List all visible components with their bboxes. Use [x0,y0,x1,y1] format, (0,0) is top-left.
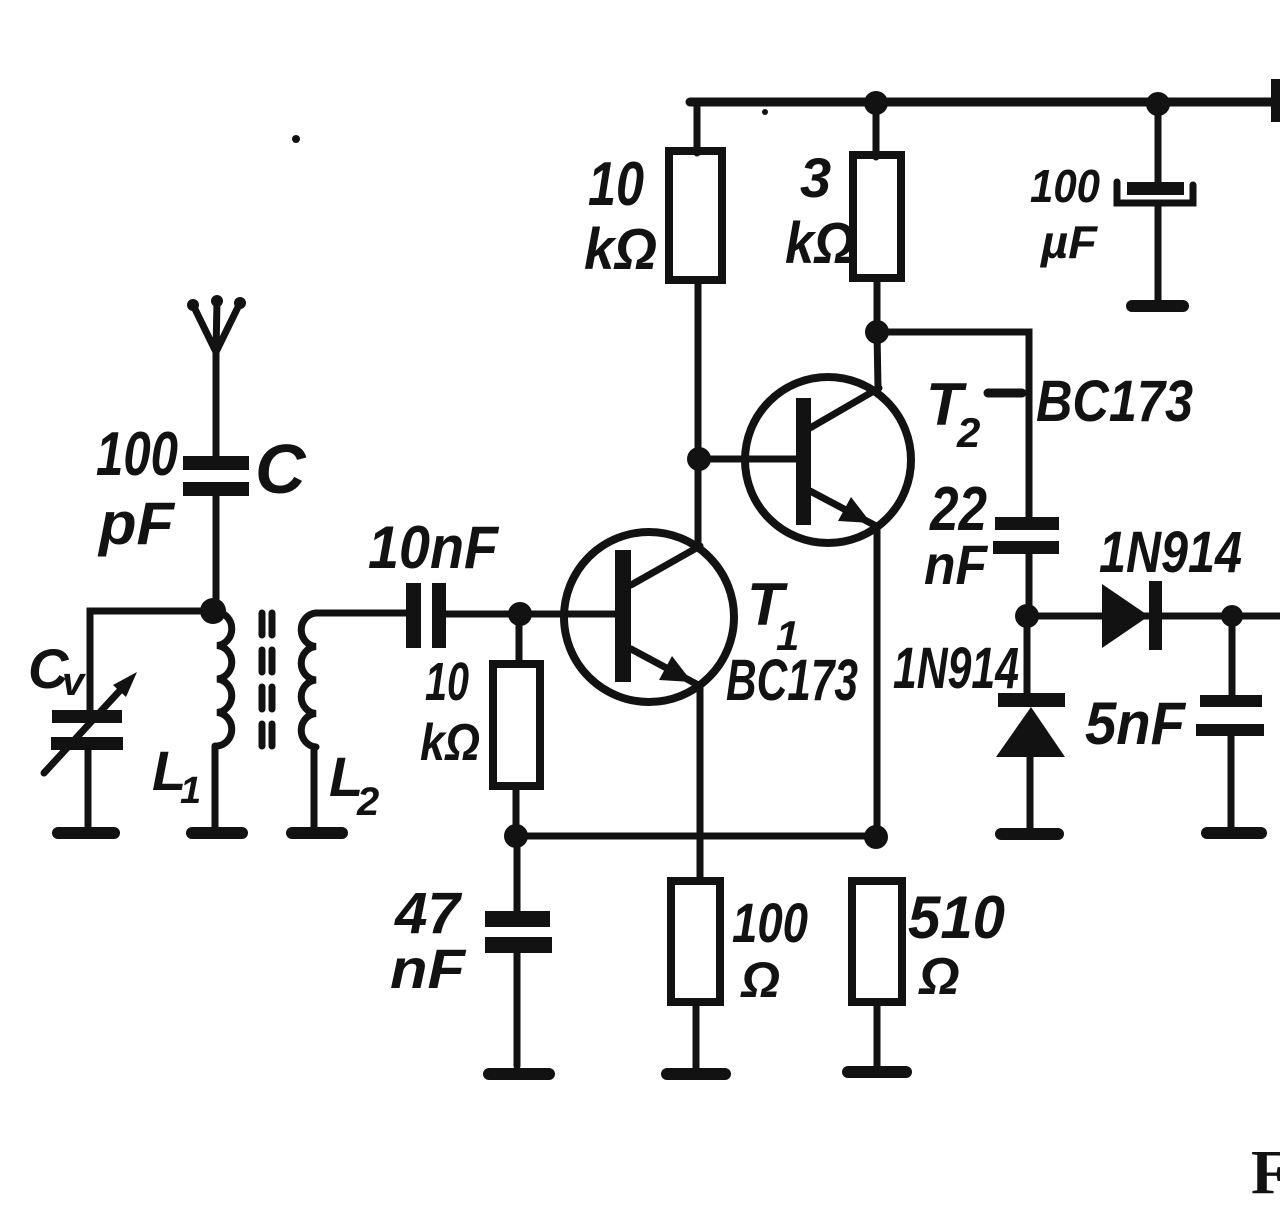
svg-text:1N914: 1N914 [1099,520,1242,585]
resistor 10 kOhm collector load [669,151,722,280]
diode D2 1N914 vertical [1024,616,1031,694]
svg-text:BC173: BC173 [726,648,858,713]
svg-text:BC173: BC173 [1036,369,1193,434]
wire top supply rail [690,98,1280,107]
ground under 5nF [1207,827,1261,839]
ground under L2 [292,827,342,839]
diode D1 1N914 horizontal [1102,584,1149,648]
resistor 10 kOhm bias [493,664,540,786]
stray ink speck on rail [762,109,768,115]
wire 100uF top [1155,104,1162,183]
node detector input [1015,604,1039,628]
wire junction to 22nF branch [877,332,1029,518]
ground under Cv [58,827,114,839]
wire tank top [90,611,213,710]
ground under 100 Ohm [667,1068,725,1080]
svg-text:v: v [62,660,87,704]
svg-text:100: 100 [1030,160,1100,212]
svg-text:nF: nF [924,533,989,596]
node rail junction above 3k [864,91,888,115]
svg-text:2: 2 [356,780,379,824]
wire bias resistor top [516,614,523,664]
wire emitter bus [516,833,876,840]
svg-text:Ω: Ω [740,952,780,1008]
resistor 3 kOhm [853,155,901,278]
inductor L1 [217,612,232,746]
wire 10k bottom down to T1 collector [695,280,702,548]
svg-text:2: 2 [956,409,980,456]
antenna [193,301,240,456]
node tank top junction [200,598,226,624]
inductor L2 [301,613,316,747]
node detector output [1221,605,1243,627]
svg-text:10nF: 10nF [368,514,499,581]
node rail junction above 100uF [1146,92,1170,116]
svg-text:10: 10 [425,652,469,712]
capacitor Cv variable [52,710,122,723]
wire 3k top [873,104,880,157]
capacitor 22nF [995,517,1059,530]
capacitor 5nF [1229,616,1236,695]
resistor 100 Ohm [671,881,720,1002]
svg-text:F: F [1251,1139,1280,1205]
svg-text:510: 510 [908,884,1005,951]
svg-text:Ω: Ω [918,948,960,1006]
ground under 100uF [1132,300,1183,312]
svg-text:µF: µF [1039,216,1099,268]
wire detector line [1027,613,1280,620]
wire T2 emitter down [874,527,881,837]
node emitter bus right [864,825,888,849]
ground under 47nF [489,1068,549,1080]
ground under D2 [1001,828,1058,840]
resistor 510 Ohm [852,881,902,1002]
svg-text:3: 3 [800,146,831,209]
node T2 collector junction [865,320,889,344]
wire rail corner down to R 10k [694,104,701,153]
capacitor 100uF electrolytic [1127,182,1184,195]
node T2 base tap [687,447,711,471]
ground under L1 [192,827,242,839]
svg-text:C: C [255,430,307,508]
svg-text:10: 10 [588,150,644,219]
capacitor 47nF [514,836,521,911]
svg-text:1N914: 1N914 [893,636,1019,701]
wire T2 collector [877,332,878,388]
svg-text:1: 1 [180,770,201,812]
wire 3k bottom [874,278,881,332]
wire T1 base [446,611,615,618]
node base junction [508,602,532,626]
svg-text:nF: nF [390,937,467,1000]
transformer core dashes [259,613,266,751]
svg-text:kΩ: kΩ [420,714,480,772]
wire T1 emitter down [697,686,704,881]
svg-text:pF: pF [97,490,175,557]
stray ink speck top left [292,135,300,143]
wire L2 to 10nF [316,610,406,617]
svg-text:kΩ: kΩ [584,217,657,282]
wire T2 base [699,456,797,463]
node emitter bus left [504,824,528,848]
ground under 510 Ohm [848,1066,906,1078]
transistor T2 BC173 [745,377,911,543]
capacitor 10nF coupling [406,583,421,648]
svg-text:100: 100 [732,891,808,954]
svg-text:100: 100 [96,420,178,489]
capacitor 100pF antenna [183,456,249,470]
svg-text:5nF: 5nF [1085,690,1186,757]
transistor T1 BC173 [564,532,734,702]
svg-text:kΩ: kΩ [785,211,855,276]
battery terminal bar clipped at right edge [1271,79,1280,122]
